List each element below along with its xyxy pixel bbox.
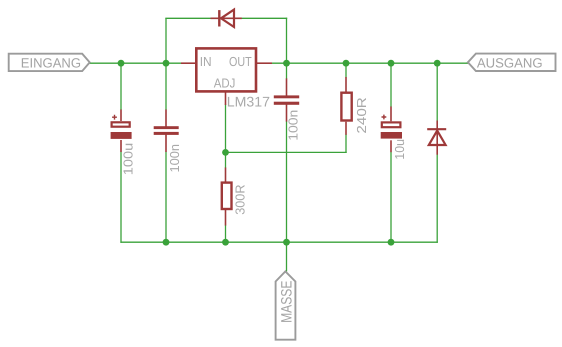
wire C2 bottom lead to ground rail <box>165 152 167 242</box>
diode D2 lead wire <box>436 121 438 155</box>
wire D2 top lead <box>436 63 438 121</box>
resistor R1 240R bottom lead <box>345 122 347 135</box>
diode D1 cathode bar <box>218 10 220 26</box>
svg-text:LM317: LM317 <box>227 93 270 109</box>
svg-text:EINGANG: EINGANG <box>21 55 81 70</box>
wire C3 top lead <box>286 63 288 79</box>
op-amp regulator U1 LM317 body <box>196 48 256 91</box>
svg-text:300R: 300R <box>233 185 248 215</box>
node junction output C4 <box>388 60 395 67</box>
wire D2 bottom lead to ground rail <box>436 155 438 243</box>
resistor R1 240R top lead <box>345 77 347 92</box>
wire MASSE stub <box>286 242 288 271</box>
wire R1 bottom lead to ADJ net <box>344 134 347 152</box>
svg-text:240R: 240R <box>354 97 369 133</box>
capacitor C4 10u bottom plate <box>381 132 402 139</box>
capacitor C2 100n top lead <box>165 110 167 128</box>
wire top loop right vertical <box>286 18 288 64</box>
flag MASSE outline <box>276 271 296 339</box>
capacitor C1 100u top plate <box>112 122 130 126</box>
wire R2 bottom lead to ground rail <box>225 225 227 242</box>
node junction output D2 <box>434 60 441 67</box>
diode D2 cathode bar <box>427 128 446 130</box>
svg-text:10u: 10u <box>392 139 407 160</box>
wire ADJ net vertical <box>225 105 227 153</box>
svg-text:OUT: OUT <box>229 54 252 69</box>
capacitor C1 100u plus mark <box>112 115 117 120</box>
node junction input C2 top-loop <box>163 60 170 67</box>
capacitor C1 100u top lead <box>120 110 122 122</box>
resistor R1 240R body <box>341 93 351 121</box>
capacitor C4 10u top lead <box>390 107 392 122</box>
wire output net OUT pin to AUSGANG <box>272 62 469 64</box>
diode D2 triangle <box>429 131 446 145</box>
wire C1 bottom lead to ground rail <box>120 152 122 243</box>
capacitor C2 100n bottom lead <box>165 135 167 153</box>
node junction input C1 <box>118 60 125 67</box>
diode D1 lead wire <box>211 17 242 19</box>
capacitor C4 10u bottom lead <box>390 140 392 152</box>
resistor R2 300R bottom lead <box>225 210 227 226</box>
capacitor C3 100n bottom lead <box>286 105 288 122</box>
wire ground rail <box>120 241 437 243</box>
node junction output R1 <box>343 60 350 67</box>
node junction ground R2 <box>222 239 229 246</box>
node junction ground C2 <box>163 239 170 246</box>
node junction output C3 <box>283 60 290 67</box>
svg-text:100n: 100n <box>167 144 182 173</box>
wire R1 top lead <box>345 63 347 77</box>
node junction ADJ R2 <box>222 149 229 156</box>
node junction ground C4 <box>388 239 395 246</box>
wire R2 top lead <box>225 152 227 168</box>
wire top loop right horizontal <box>242 17 288 19</box>
svg-text:IN: IN <box>200 54 212 69</box>
svg-text:AUSGANG: AUSGANG <box>477 56 543 71</box>
wire top loop left horizontal <box>165 17 211 19</box>
node junction ground C3 MASSE <box>283 239 290 246</box>
wire C4 top lead <box>390 63 392 107</box>
wire C3 bottom lead to ground rail <box>286 121 288 242</box>
wire C1 top lead <box>120 63 122 110</box>
capacitor C3 100n top lead <box>286 78 288 96</box>
diode D1 triangle <box>221 10 234 27</box>
capacitor C1 100u bottom lead <box>120 140 122 152</box>
resistor R2 300R body <box>222 183 232 209</box>
flag AUSGANG outline <box>468 54 556 71</box>
svg-text:ADJ: ADJ <box>214 75 236 90</box>
wire input net EINGANG to IN pin <box>90 62 183 64</box>
capacitor C3 100n bottom plate <box>274 102 299 105</box>
capacitor C4 10u plus mark <box>382 115 387 120</box>
capacitor C2 100n bottom plate <box>154 132 179 135</box>
flag EINGANG outline <box>9 54 90 71</box>
op-amp regulator U1 LM317 pin stubs <box>181 63 272 105</box>
svg-text:MASSE: MASSE <box>279 281 296 323</box>
svg-text:100u: 100u <box>120 143 135 175</box>
capacitor C4 10u top plate <box>382 122 401 127</box>
wire top loop left vertical <box>165 18 167 63</box>
svg-text:100n: 100n <box>286 110 301 141</box>
wire C4 bottom lead to ground rail <box>390 152 392 242</box>
capacitor C3 100n top plate <box>274 95 299 98</box>
resistor R2 300R top lead <box>225 168 227 183</box>
wire C2 top lead <box>165 63 167 110</box>
wire ADJ net horizontal <box>226 151 347 153</box>
capacitor C1 100u bottom plate <box>111 132 132 139</box>
capacitor C2 100n top plate <box>154 126 179 129</box>
